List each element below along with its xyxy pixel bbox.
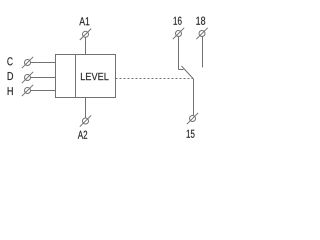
- terminal 15: [187, 113, 198, 124]
- label 15: [187, 130, 195, 138]
- wire 18 NO contact: [202, 37, 204, 68]
- terminal H: [22, 85, 33, 96]
- label A1: [79, 17, 89, 25]
- terminal 18: [196, 28, 207, 39]
- wire box to A2: [85, 98, 87, 119]
- label 18: [196, 17, 205, 25]
- label LEVEL: [81, 73, 109, 80]
- label D: [8, 72, 13, 80]
- wire pole to 15: [193, 79, 195, 116]
- terminal A1: [80, 29, 91, 40]
- label H: [8, 87, 13, 95]
- wire D to box: [31, 77, 56, 79]
- terminal D: [22, 72, 33, 83]
- relay coil box U1: [56, 55, 116, 98]
- wire C to box: [31, 62, 56, 64]
- wire 16 to NC contact: [179, 37, 184, 70]
- actuation link (dashed): [116, 78, 194, 80]
- relay switch arm: [182, 66, 194, 79]
- label A2: [78, 131, 87, 139]
- label 16: [174, 17, 182, 25]
- terminal A2: [80, 115, 91, 126]
- terminal C: [22, 57, 33, 68]
- wire A1 to box: [85, 37, 87, 54]
- wire H to box: [31, 90, 56, 92]
- terminal 16: [173, 28, 184, 39]
- label C: [7, 57, 12, 65]
